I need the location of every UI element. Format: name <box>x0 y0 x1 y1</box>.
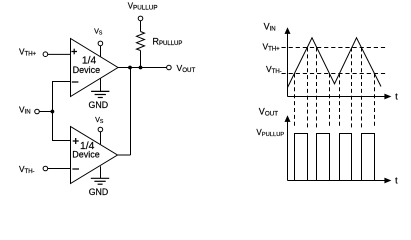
svg-text:Device: Device <box>73 65 101 75</box>
svg-text:GND: GND <box>89 187 109 197</box>
svg-text:Device: Device <box>72 150 100 160</box>
svg-text:GND: GND <box>89 100 109 110</box>
